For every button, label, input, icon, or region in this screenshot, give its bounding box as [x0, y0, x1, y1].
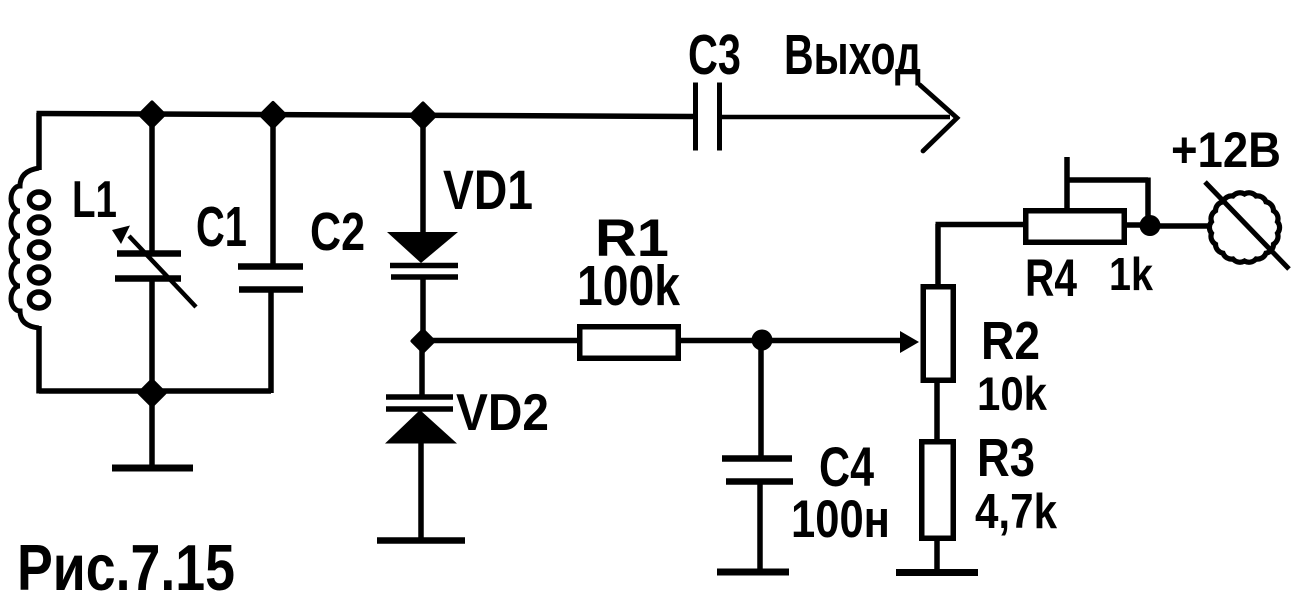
svg-text:10k: 10k: [977, 367, 1048, 420]
svg-text:R4: R4: [1025, 249, 1077, 308]
svg-text:C1: C1: [196, 195, 247, 259]
svg-text:1k: 1k: [1109, 248, 1153, 300]
svg-text:L1: L1: [72, 171, 117, 229]
svg-text:4,7k: 4,7k: [975, 485, 1058, 539]
svg-text:+12В: +12В: [1171, 122, 1281, 178]
svg-text:C2: C2: [310, 202, 365, 262]
svg-text:R2: R2: [981, 311, 1040, 371]
svg-text:100н: 100н: [791, 490, 890, 549]
svg-text:VD1: VD1: [443, 158, 533, 221]
svg-text:C4: C4: [819, 435, 874, 498]
svg-text:Выход: Выход: [784, 23, 921, 87]
svg-text:R3: R3: [977, 428, 1035, 488]
svg-text:100k: 100k: [577, 254, 680, 318]
svg-text:C3: C3: [688, 23, 741, 87]
svg-text:VD2: VD2: [456, 384, 549, 442]
svg-text:Рис.7.15: Рис.7.15: [17, 531, 235, 604]
